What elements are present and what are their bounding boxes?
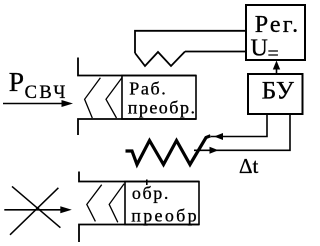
arrow generator output (4, 209, 61, 211)
chevron break mark 1 in W2 (87, 185, 102, 222)
waveguide W2 top wall with flange (79, 172, 199, 182)
scan artifact tick on W2 top wall (146, 180, 148, 186)
chevron break mark 2 in W2 (109, 184, 124, 223)
arrow БУ to Рег (276, 67, 278, 74)
waveguide W1 top wall with flange (78, 58, 196, 76)
wire thermocouple to БУ upper (211, 114, 267, 137)
svg-text:преобр: преобр (131, 206, 199, 226)
chevron break mark 2 in W1 (106, 78, 122, 118)
svg-text:=: = (268, 43, 279, 65)
svg-text:БУ: БУ (262, 75, 295, 104)
arrow microwave power input (3, 103, 63, 105)
svg-text:обр.: обр. (132, 183, 170, 203)
thermocouple hot junction zigzag (measuring) (126, 136, 211, 165)
svg-text:Δt: Δt (239, 154, 259, 178)
svg-text:Р: Р (9, 66, 24, 97)
wire upper loop bottom (185, 51, 246, 53)
waveguide W1 bottom wall with flange (78, 119, 196, 135)
svg-text:U: U (251, 35, 268, 61)
arrowhead pointing right on lower wire (210, 147, 219, 154)
svg-text:Рег.: Рег. (255, 12, 301, 38)
box working transducer Раб. преобр. (122, 76, 196, 120)
box reverse transducer обр. преобр (125, 182, 199, 225)
wire upper loop top (135, 31, 246, 53)
svg-text:СВЧ: СВЧ (25, 83, 68, 103)
thermocouple reference junction zigzag (135, 52, 185, 67)
waveguide W2 bottom wall with flange (79, 225, 199, 243)
chevron break mark 1 in W1 (85, 78, 101, 118)
box U2 control unit БУ (248, 74, 303, 114)
svg-text:Раб.: Раб. (129, 78, 167, 98)
svg-text:преобр.: преобр. (128, 98, 197, 118)
generator symbol crossed line 1 (12, 186, 60, 227)
wire thermocouple to БУ lower (194, 114, 290, 150)
junction dot at generator crossing (36, 207, 39, 210)
box U1 registrar Рег. (246, 5, 305, 60)
arrowhead pointing left on upper wire (214, 133, 223, 140)
generator symbol crossed line 2 (10, 188, 58, 235)
